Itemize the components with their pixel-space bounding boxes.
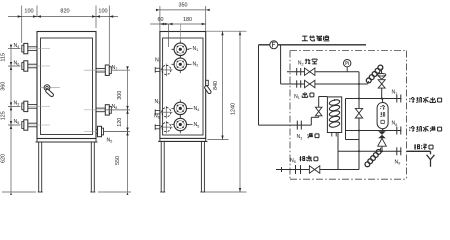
nozzle N5 (left bottom) (28, 122, 37, 124)
dimension 620 (10, 121, 12, 125)
pipe: drop from coil box (337, 133, 339, 170)
top nozzle flange N1 (plan circle) (179, 41, 181, 59)
valve V5 on condensate line (309, 166, 314, 173)
drain cone (378, 138, 387, 146)
svg-text:360: 360 (1, 82, 7, 91)
pipe: cooling water in line (346, 130, 402, 132)
pipe: main drop leg (358, 72, 360, 170)
valve V3 (vertical) on inlet riser (315, 107, 322, 111)
right dimension chain line (127, 70, 129, 192)
top nozzle flange N4 (plan circle) (179, 100, 181, 118)
top nozzle flange N2 (plan circle) (179, 56, 181, 74)
nozzle N4 (left top) (28, 46, 37, 48)
pipe: cooling water out line (346, 98, 402, 100)
label 冷却水出口 (409, 97, 414, 102)
svg-text:5: 5 (294, 160, 296, 164)
svg-text:7: 7 (115, 67, 117, 71)
dimension 100 (top right) (95, 6, 97, 29)
vent funnel (378, 74, 386, 77)
svg-text:100: 100 (98, 9, 107, 15)
side nozzle N6 seen through (dashed circle) (165, 121, 167, 134)
valve V2 on outlet line (305, 80, 310, 87)
dimension 350 (159, 6, 161, 31)
nozzle N7 (right top) (96, 67, 105, 69)
pipe: condensate drain line N5 (276, 169, 359, 171)
cooling water out flange N7 (396, 95, 398, 103)
dimension 125 (10, 102, 12, 106)
tank T1 base plate (36, 141, 98, 143)
svg-text:9: 9 (398, 162, 400, 166)
dimension 115 (10, 45, 12, 49)
svg-text:180: 180 (183, 17, 192, 23)
side view leg L3 (160, 141, 162, 192)
pipe: process header 工艺管道 (259, 44, 367, 46)
dimension 120 (126, 106, 128, 110)
svg-text:115: 115 (1, 53, 7, 62)
svg-text:1240: 1240 (231, 103, 237, 115)
pipe: bypass elbow (345, 131, 347, 140)
svg-text:8: 8 (395, 123, 397, 127)
flanges on vent line (296, 68, 298, 75)
dimension 550 (126, 128, 128, 132)
cooling water in flange N8 (396, 127, 398, 135)
svg-text:7: 7 (395, 92, 397, 96)
svg-text:300: 300 (117, 91, 123, 100)
flanges on outlet line (296, 80, 298, 87)
valve V6 (vertical, below funnel) (378, 80, 385, 84)
pipe: vent line N2 (287, 71, 359, 73)
svg-text:100: 100 (24, 9, 33, 15)
svg-text:2: 2 (196, 64, 198, 68)
svg-text:550: 550 (115, 156, 121, 165)
svg-text:5: 5 (17, 121, 19, 125)
dimension 100 (top left) (21, 6, 23, 44)
pipe: drain header (338, 150, 402, 152)
funnel Y outlet (427, 155, 431, 160)
pipe: vent riser (280, 45, 282, 84)
nozzle N8 (right mid) (96, 107, 105, 109)
dimension 300 (126, 66, 128, 70)
svg-text:5: 5 (110, 140, 112, 144)
flexible hose coil (top) (368, 81, 369, 84)
dimension 820 (top) (33, 15, 37, 17)
svg-text:2: 2 (302, 63, 304, 67)
pipe: left riser to inlet (258, 45, 260, 125)
equipment boundary (dash-dot box) (290, 50, 407, 52)
svg-text:120: 120 (117, 118, 123, 127)
label 冷却水进口 (409, 126, 414, 131)
instrument circle F on header (270, 41, 278, 49)
svg-text:3: 3 (158, 101, 160, 105)
side nozzle N7 seen through (dashed circle) (165, 64, 167, 77)
leg L1 (38, 142, 40, 192)
nozzle N3 (left) (28, 104, 37, 106)
svg-text:620: 620 (1, 154, 7, 163)
tank T1 side view base plate (158, 140, 207, 142)
leg L2 (90, 142, 92, 192)
coil box legs (331, 133, 333, 137)
valve V4 on main drop leg (355, 108, 362, 113)
flexible hose coil (bottom) (379, 148, 382, 150)
handle / agitator boss on T1 (41, 87, 61, 89)
svg-text:6: 6 (158, 116, 160, 120)
side view leg L4 (200, 141, 202, 192)
svg-text:1: 1 (196, 48, 198, 52)
svg-text:820: 820 (60, 9, 69, 15)
svg-text:125: 125 (1, 111, 7, 120)
pipe: cooling connector (345, 99, 347, 131)
flanges on condensate line (295, 165, 297, 174)
dimension 360 (10, 62, 12, 66)
tank T1 side view: inner jacket wall (163, 38, 203, 135)
left dimension chain line (10, 49, 12, 192)
tank T1 side view: outer shell (160, 32, 206, 139)
dimension 1240 (205, 191, 246, 193)
dimension 60 (168, 24, 170, 47)
top nozzle flange N5 (plan circle) (179, 116, 181, 134)
nozzle N5 (right bottom) (96, 129, 98, 131)
rotameter / cooler body (382, 99, 384, 103)
valve V7 (vertical, below cooler) (378, 131, 386, 135)
svg-text:4: 4 (197, 108, 199, 112)
condenser coil box E1 (327, 97, 341, 133)
junction dots (358, 83, 360, 85)
svg-text:3: 3 (300, 136, 302, 140)
side nozzle N3 seen through (dashed circle) (165, 106, 167, 119)
nozzle N6 (left) (28, 63, 37, 65)
pipe: inlet line N3 with jog (259, 124, 312, 126)
valve V1 on vent line (305, 68, 310, 75)
label 排净口 (414, 144, 420, 150)
dimension 180 (169, 23, 173, 25)
label 工艺管道 (302, 36, 308, 41)
handle boss on side view (206, 80, 209, 85)
svg-text:840: 840 (213, 81, 219, 90)
dimension 840 (206, 30, 247, 32)
tank T1 front view: outer shell (37, 32, 96, 139)
flanges on inlet line (296, 121, 298, 130)
svg-text:5: 5 (197, 124, 199, 128)
drain flange N9 (396, 147, 398, 155)
svg-text:7: 7 (159, 60, 161, 64)
svg-text:1: 1 (298, 96, 300, 100)
svg-text:350: 350 (179, 3, 188, 9)
pressure gauge PI (346, 67, 348, 72)
pipe: outlet line N1 (281, 83, 368, 85)
svg-text:60: 60 (158, 17, 164, 23)
tank T1 front view: inner jacket wall (41, 38, 93, 135)
